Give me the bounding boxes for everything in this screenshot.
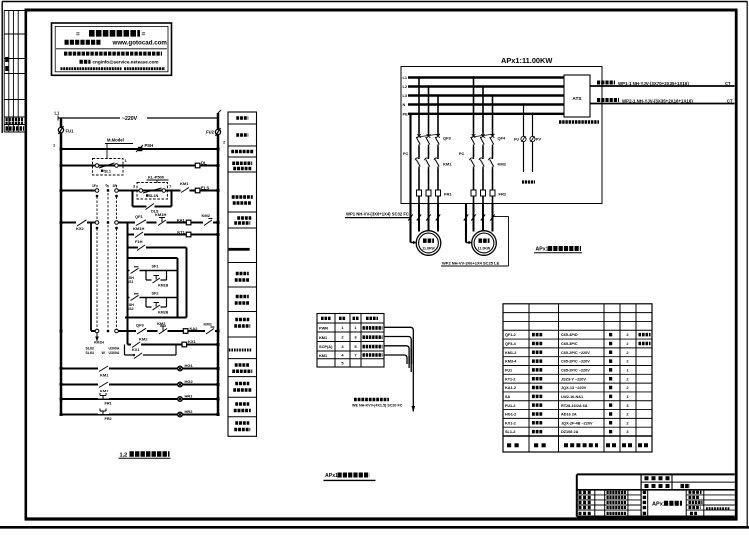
rung 1 wire <box>61 148 218 150</box>
ATS transfer switch U-ATS <box>564 75 590 117</box>
bus PE <box>408 113 564 115</box>
svg-text:KX1: KX1 <box>132 348 139 352</box>
cable label WP2 with leader <box>441 217 509 267</box>
switch PSH on rung 1 <box>136 143 153 152</box>
contact SSH1 NC <box>127 267 140 284</box>
svg-text:JQX-2F-4B ~220V: JQX-2F-4B ~220V <box>561 421 593 425</box>
contact KM2 on rung 10 <box>98 381 109 394</box>
svg-text:QF1-2: QF1-2 <box>505 333 516 337</box>
svg-text:APx1: APx1 <box>536 247 549 253</box>
rung 9 wire (lamp HG1) <box>61 368 218 370</box>
one-line diagram caption APx1 primary system <box>534 247 582 253</box>
outer border bottom <box>0 526 749 529</box>
svg-text:FU2: FU2 <box>206 130 215 135</box>
svg-text:BS2: BS2 <box>127 307 134 311</box>
outer border right <box>746 2 748 528</box>
svg-text:ELS: ELS <box>201 186 209 191</box>
bus L3 <box>408 94 564 96</box>
control cable wires to PLC <box>384 327 415 412</box>
svg-text:QF4: QF4 <box>498 136 507 141</box>
coil KA1 on rung 4 <box>177 217 191 225</box>
svg-text:U300A: U300A <box>109 347 120 351</box>
wire vertical feeder x127 <box>127 223 129 345</box>
sub-rung A wire <box>128 270 178 272</box>
svg-text:KM1: KM1 <box>180 181 189 186</box>
svg-text:APx1: APx1 <box>652 502 666 508</box>
cable destination label <box>352 400 403 408</box>
PE conductor to motor 2 <box>466 203 472 244</box>
title block stage column <box>643 490 648 517</box>
svg-text:2F: 2F <box>113 184 117 188</box>
svg-text:KM1: KM1 <box>319 335 328 340</box>
svg-text:KM1: KM1 <box>204 322 213 327</box>
bus N <box>408 103 564 105</box>
svg-text:U300A: U300A <box>109 351 120 355</box>
terminal table caption APx1 external terminals <box>324 473 376 480</box>
svg-text:PV: PV <box>536 138 542 142</box>
bus L2 <box>408 85 564 87</box>
svg-text:SL64: SL64 <box>86 351 94 355</box>
svg-text:ATS: ATS <box>572 96 582 102</box>
svg-text:KM1: KM1 <box>443 162 452 167</box>
svg-text:KX1: KX1 <box>188 339 197 344</box>
label KL-P500 with leader <box>147 175 169 184</box>
selector SA terminals row 3 <box>95 329 118 333</box>
logo box (netease civil online watermark) <box>52 23 172 75</box>
cable label WP1 motor 1 feeder <box>345 211 411 217</box>
svg-text:LW2-16-N&1: LW2-16-N&1 <box>561 395 583 399</box>
ATS output feeder WP1-1 <box>590 81 735 86</box>
svg-text:SL63: SL63 <box>86 347 94 351</box>
selector SA terminals row 1 <box>92 184 118 198</box>
rung 5 wire <box>128 234 219 236</box>
svg-text:KT1: KT1 <box>177 229 185 234</box>
svg-text:KM2: KM2 <box>139 337 148 342</box>
contact QF1 on rung 4 <box>135 214 147 226</box>
svg-text:KM1H: KM1H <box>94 341 104 345</box>
pushbutton SF1 loop <box>146 265 169 288</box>
svg-text:KX1-2: KX1-2 <box>505 421 516 425</box>
rung 4 wire <box>61 222 99 224</box>
svg-text:FU1: FU1 <box>66 129 75 134</box>
svg-text:QF3: QF3 <box>443 136 452 141</box>
svg-text:WP2 NH-VV-3X6+1X4 SC25 LE: WP2 NH-VV-3X6+1X4 SC25 LE <box>442 261 500 266</box>
svg-text:HR1: HR1 <box>185 394 194 399</box>
fuse FU2 <box>206 128 221 136</box>
lamp HR1 <box>178 394 194 402</box>
float switch SL1 (dashed enclosure) <box>93 159 127 176</box>
thermal relay FR1 <box>417 169 453 203</box>
panel enclosure box <box>401 67 602 204</box>
thermal contact FR2 <box>98 408 112 422</box>
svg-text:JSZ3-Y ~220V: JSZ3-Y ~220V <box>561 377 586 381</box>
selector SA terminals row 2 <box>95 221 118 230</box>
svg-text:APx1: APx1 <box>325 473 338 479</box>
svg-text:QF1: QF1 <box>135 214 144 219</box>
svg-text:SL1: SL1 <box>104 170 111 174</box>
coil ELS on rung 3 <box>195 186 209 193</box>
svg-text:JQX-13 ~220V: JQX-13 ~220V <box>561 386 587 390</box>
svg-text:FR1: FR1 <box>105 402 112 406</box>
title block right columns <box>686 490 735 517</box>
title block row labels <box>645 478 691 486</box>
svg-text:1,2: 1,2 <box>120 453 128 459</box>
svg-text:KM2: KM2 <box>202 213 211 218</box>
ladder title 1,2 pump secondary schematic <box>119 453 171 459</box>
svg-text:KX2: KX2 <box>76 226 85 231</box>
svg-text:KM1-2: KM1-2 <box>505 351 516 355</box>
svg-text:FU1: FU1 <box>505 369 512 373</box>
svg-text:BS1: BS1 <box>127 280 134 284</box>
thermal relay FR2 <box>471 169 507 203</box>
rung 2 wire <box>61 165 218 167</box>
svg-text:M.Model: M.Model <box>107 138 124 143</box>
svg-text:KT1-2: KT1-2 <box>505 377 516 381</box>
svg-text:11.0KW: 11.0KW <box>422 247 435 251</box>
contact KX2 on rung 4 <box>76 219 87 231</box>
sub-rung B wire <box>128 297 178 299</box>
svg-text:WP1-1 NH-YJV-(3X70+2X35+1X16): WP1-1 NH-YJV-(3X70+2X35+1X16) <box>618 81 689 86</box>
float switch SL1N (dashed enclosure) <box>133 183 171 200</box>
svg-text:KM2: KM2 <box>498 162 507 167</box>
svg-text:RT28-16/2A 6A: RT28-16/2A 6A <box>561 404 588 408</box>
svg-text:1F: 1F <box>92 184 96 188</box>
contact KM1 on rung 9 <box>98 365 109 378</box>
svg-text:HG1-2: HG1-2 <box>505 413 516 417</box>
SA bottom arrow <box>95 333 99 342</box>
svg-text:FU: FU <box>514 138 519 142</box>
SA labels <box>86 341 120 356</box>
motor M1 (pump 1) <box>416 231 441 256</box>
svg-text:QF3: QF3 <box>136 323 145 328</box>
title block <box>577 474 735 516</box>
bus junctions <box>60 148 220 417</box>
wire right bus <box>217 113 220 415</box>
svg-text:HG2: HG2 <box>185 379 194 384</box>
lamp HR2 <box>178 409 194 417</box>
wire branch to SA row 2 <box>90 223 92 331</box>
svg-text:SL1-2: SL1-2 <box>505 430 515 434</box>
svg-text:KM1: KM1 <box>319 353 328 358</box>
contactor KM1 (3-pole) <box>415 147 452 169</box>
svg-text:WP2-1 NH-YJV-(3X35+2X16+1X16): WP2-1 NH-YJV-(3X35+2X16+1X16) <box>622 99 693 104</box>
outer border left (upper segment) <box>1 2 3 134</box>
motor feeder cables with marks <box>408 203 494 231</box>
svg-text:SF1: SF1 <box>152 265 159 269</box>
contactor KM2 (3-pole) <box>470 147 507 169</box>
svg-text:DL: DL <box>201 161 207 166</box>
svg-text:~220V: ~220V <box>122 116 138 122</box>
svg-text:FU1-2: FU1-2 <box>505 404 516 408</box>
svg-text:CT: CT <box>727 99 733 104</box>
svg-text:WE NH-KVV-(4X1.5) SC20 FC: WE NH-KVV-(4X1.5) SC20 FC <box>352 403 403 407</box>
contact KM1 NC on rung 7 <box>204 322 216 335</box>
rung 8 wire <box>128 344 219 346</box>
thermal contact FR1 <box>98 392 112 406</box>
svg-text:N: N <box>403 102 406 107</box>
svg-text:KM1B: KM1B <box>158 284 169 288</box>
svg-text:KM2: KM2 <box>157 321 166 326</box>
svg-text:SL1N: SL1N <box>149 194 159 198</box>
rung 12 wire (lamp HR2) <box>61 414 218 416</box>
svg-text:1: 1 <box>125 159 127 163</box>
svg-text:0: 0 <box>106 184 108 188</box>
svg-text:QF3-4: QF3-4 <box>505 342 517 346</box>
self-hold loop contact KX1 <box>125 345 177 359</box>
svg-text:KL-P500: KL-P500 <box>148 175 165 180</box>
circuit breaker QF4 (3-pole) <box>471 76 506 147</box>
svg-text:KM2B: KM2B <box>158 311 169 315</box>
drawing name APx1 schematic <box>652 490 686 517</box>
terminal strip table <box>317 314 384 368</box>
svg-text:KM1H: KM1H <box>155 212 166 217</box>
bypass wire with contact DLS below rung 3 <box>133 191 172 214</box>
voltage monitor fuses FU PV <box>514 103 542 182</box>
svg-text:PWR: PWR <box>319 326 328 331</box>
svg-text:KA1-2: KA1-2 <box>505 386 516 390</box>
svg-text:C65-3P/C: C65-3P/C <box>561 342 578 346</box>
svg-text:cnginfo@service.netease.com: cnginfo@service.netease.com <box>93 60 159 65</box>
bus L1 <box>408 76 564 78</box>
contact KM1 on rung 3 <box>180 181 190 194</box>
PE conductor to motor 1 <box>409 113 416 245</box>
svg-text:PC: PC <box>459 152 465 156</box>
nested network frame wires <box>125 258 187 318</box>
svg-text:PSH: PSH <box>145 143 154 148</box>
svg-text:WP1 NH-VV-(3X6+1X4) SC32 FC: WP1 NH-VV-(3X6+1X4) SC32 FC <box>346 211 409 216</box>
lamp HG1 <box>178 363 194 371</box>
svg-text:AD16 2A: AD16 2A <box>561 413 577 417</box>
svg-text:FR2: FR2 <box>499 192 507 197</box>
signature strip table (rotated title column) <box>4 11 24 133</box>
contact KM2 NC on rung 4 <box>202 213 214 226</box>
svg-text:www.gotocad.com: www.gotocad.com <box>112 40 168 47</box>
svg-text:=: = <box>142 31 146 38</box>
bus labels L1 L2 L3 N PE <box>403 75 409 116</box>
svg-text:PC: PC <box>403 152 409 156</box>
contact QF3 on rung 7 <box>136 323 147 335</box>
contact FU1H on rung 6 <box>135 239 146 251</box>
outer border top <box>2 1 748 3</box>
svg-text:DZ108 2A: DZ108 2A <box>561 430 579 434</box>
rung 6 wire with corner <box>128 248 187 318</box>
coil KX1 on rung 8 <box>182 339 197 347</box>
component list table <box>503 304 652 452</box>
svg-text:KM1H: KM1H <box>133 226 144 231</box>
svg-text:11.0KW: 11.0KW <box>478 247 491 251</box>
lamp HG2 <box>178 379 194 387</box>
svg-text:HG1: HG1 <box>185 363 194 368</box>
rung 11 wire (lamp HR1) <box>61 398 218 400</box>
selector SA dashed gang lines <box>97 185 117 329</box>
coil DL on rung 2 <box>195 161 207 168</box>
pushbutton SF2 loop <box>146 292 169 315</box>
pushbutton KM2H on rung 7 <box>157 321 168 335</box>
contact KM1H on rung 5 <box>133 226 144 238</box>
svg-text:C65-2P/C ~220V: C65-2P/C ~220V <box>561 351 590 355</box>
contact KM2 on rung 8 <box>131 337 148 349</box>
coil KT1 on rung 5 <box>177 229 191 237</box>
svg-text:CT: CT <box>725 81 731 86</box>
rung 7 wire <box>91 330 99 332</box>
svg-text:F1H: F1H <box>135 239 143 244</box>
fuse FU1 <box>58 126 74 134</box>
svg-text:L1: L1 <box>55 111 61 116</box>
svg-text:C65-4P/D: C65-4P/D <box>561 333 578 337</box>
circuit breaker QF3 (3-pole) <box>416 76 451 147</box>
svg-text:FR2: FR2 <box>105 417 112 421</box>
svg-text:7: 7 <box>169 185 171 189</box>
svg-text:3: 3 <box>133 185 135 189</box>
svg-text:C65-2P/C ~220V: C65-2P/C ~220V <box>561 369 590 373</box>
function description column <box>228 112 257 436</box>
rung 3 wire <box>61 190 99 192</box>
svg-text:=: = <box>76 31 80 38</box>
svg-text:KM1: KM1 <box>100 373 109 378</box>
wire left bus <box>60 118 63 415</box>
ATS model label <box>559 120 599 123</box>
wire top ~220V line <box>58 110 221 121</box>
svg-text:KA2: KA2 <box>190 326 199 331</box>
svg-text:SF2: SF2 <box>152 292 159 296</box>
contact SSH2 NC <box>127 294 140 311</box>
svg-text:FR1: FR1 <box>444 192 452 197</box>
motor M2 (pump 2) <box>472 231 497 256</box>
ATS output feeder WP2-1 <box>590 99 735 104</box>
svg-text:SCP(A): SCP(A) <box>319 344 333 349</box>
pushbutton KM1H on rung 4 <box>155 212 167 226</box>
svg-text:HR2: HR2 <box>185 409 194 414</box>
svg-text:APx1:11.00KW: APx1:11.00KW <box>501 56 552 65</box>
label M.Model with leader <box>105 138 133 159</box>
svg-text:SA: SA <box>505 395 511 399</box>
svg-text:PE: PE <box>403 111 409 116</box>
svg-text:KA1: KA1 <box>177 217 186 222</box>
title block left columns <box>577 490 641 517</box>
svg-text:C65-2P/C ~220V: C65-2P/C ~220V <box>561 360 590 364</box>
svg-text:KM3-4: KM3-4 <box>505 360 517 364</box>
coil KA2 on rung 7 <box>183 326 198 333</box>
rung 10 wire (lamp HG2) <box>61 384 218 386</box>
